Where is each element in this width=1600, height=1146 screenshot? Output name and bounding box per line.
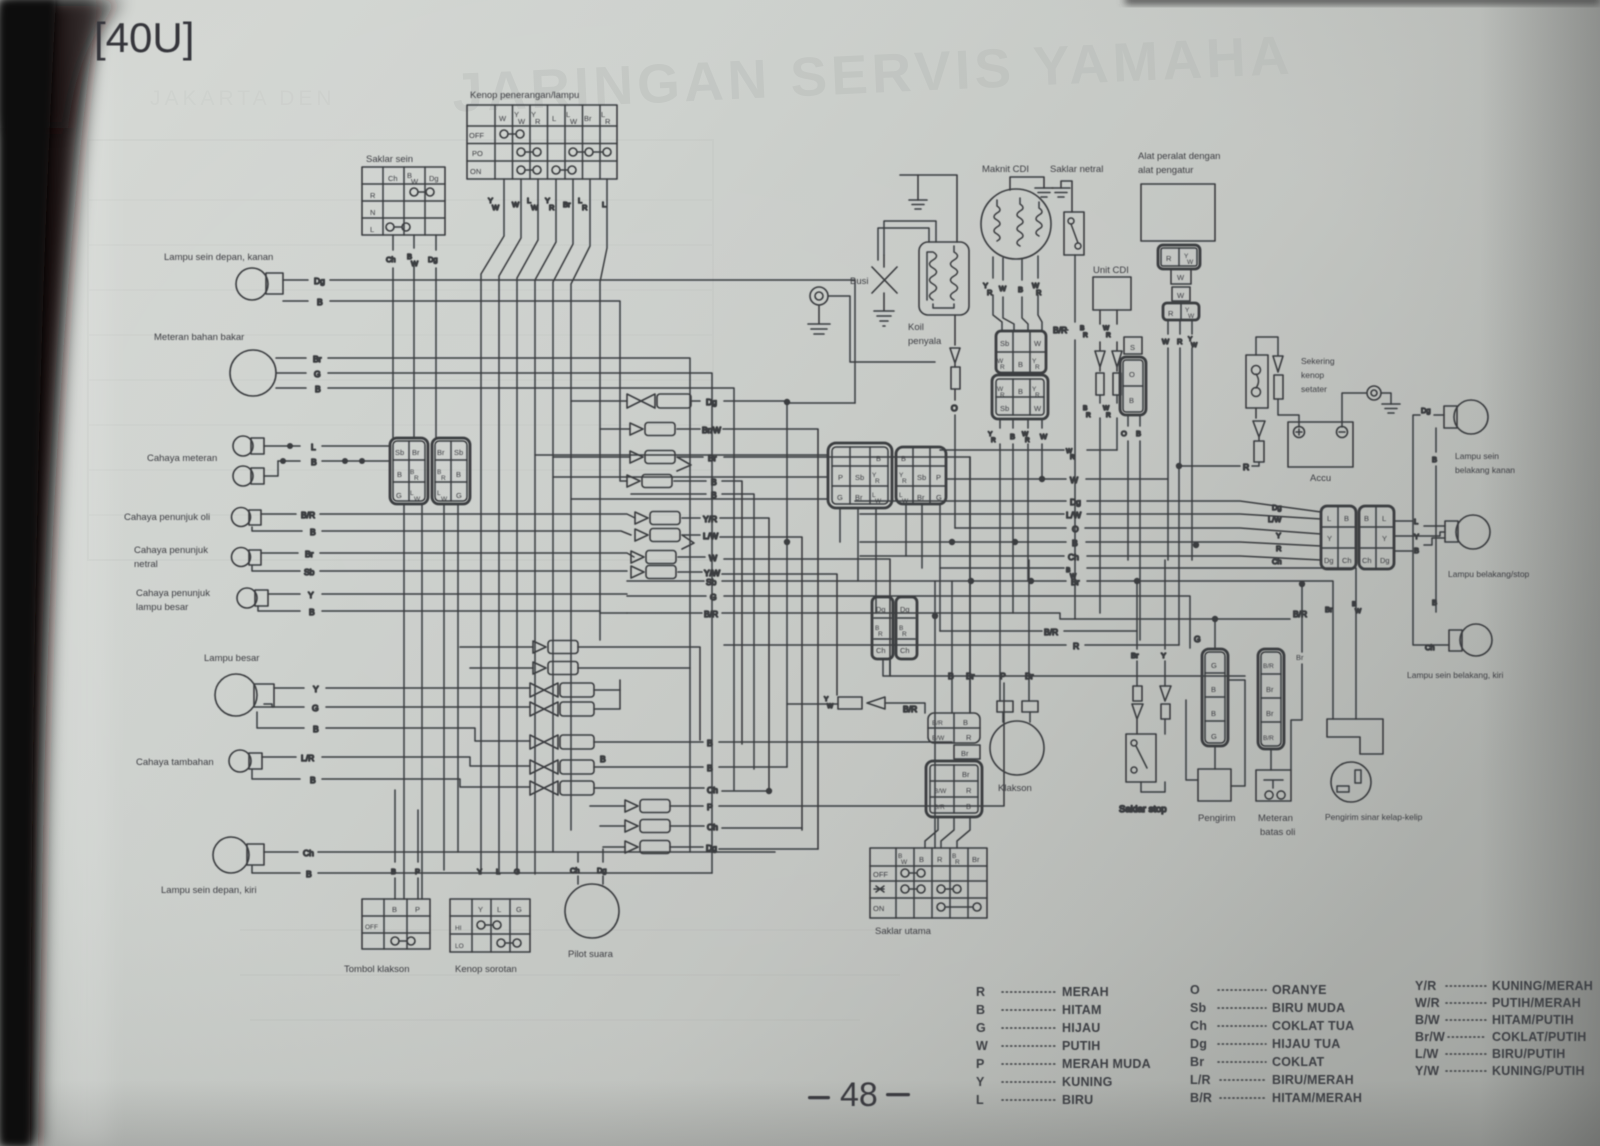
junction dots mid band (784, 539, 938, 848)
svg-text:B: B (1211, 685, 1216, 694)
svg-text:W: W (1040, 432, 1048, 441)
wire W/R (940, 448, 1117, 461)
svg-text:Ch: Ch (1425, 643, 1435, 652)
svg-text:P: P (838, 473, 843, 482)
sender: Pengirim connector stack and box (1186, 649, 1245, 824)
arrow connector column upper: Dg row (571, 394, 855, 408)
svg-text:B: B (306, 869, 312, 879)
svg-text:B: B (310, 775, 316, 785)
svg-text:Unit CDI: Unit CDI (1093, 265, 1129, 276)
svg-text:R: R (549, 203, 555, 212)
svg-text:L: L (976, 1093, 984, 1107)
svg-text:W: W (499, 114, 507, 123)
svg-text:B: B (1083, 405, 1087, 412)
svg-text:Cahaya penunjuk: Cahaya penunjuk (134, 545, 208, 556)
svg-text:B: B (711, 477, 717, 487)
svg-text:Br: Br (972, 855, 980, 864)
wire B/R row (627, 609, 1307, 648)
wire Sb neutral (252, 566, 627, 577)
svg-text:L: L (311, 442, 316, 452)
svg-text:Sb: Sb (395, 448, 404, 457)
arrow connector row 847: Dg (603, 841, 818, 854)
svg-text:HITAM: HITAM (1062, 1003, 1102, 1017)
svg-text:Ch: Ch (1190, 1019, 1207, 1033)
svg-text:B: B (707, 738, 713, 748)
svg-text:B: B (310, 527, 316, 537)
color code legend column 1 (976, 985, 1151, 1107)
arrow connector: Y/W row (631, 566, 837, 696)
svg-text:B: B (1364, 514, 1369, 523)
svg-text:alat pengatur: alat pengatur (1138, 165, 1193, 176)
svg-text:setater: setater (1301, 384, 1327, 394)
wire Br long (627, 577, 1333, 719)
frame ground bolt (left of busi) (808, 287, 830, 334)
svg-text:R: R (1083, 332, 1088, 339)
wire Dg long (855, 497, 1321, 512)
svg-text:B: B (600, 754, 606, 764)
svg-text:W: W (414, 496, 421, 503)
diode + resistor below coil, O wire (950, 315, 960, 528)
leads below maknit connector: Y/R B W/R W (988, 419, 1048, 676)
svg-text:Saklar sein: Saklar sein (366, 154, 413, 165)
svg-text:Ch: Ch (570, 866, 580, 875)
svg-text:B: B (1352, 601, 1356, 608)
stop switch: Saklar stop with leads (1119, 560, 1171, 815)
svg-text:W: W (999, 284, 1007, 293)
svg-text:R: R (1073, 641, 1079, 651)
svg-text:B/R: B/R (903, 704, 917, 714)
svg-text:L: L (1327, 514, 1331, 523)
svg-text:G: G (1211, 661, 1217, 670)
svg-text:R: R (1000, 364, 1005, 371)
svg-text:B/R: B/R (301, 510, 315, 520)
svg-text:Y/R: Y/R (703, 514, 717, 524)
svg-text:G: G (837, 493, 843, 502)
svg-text:L/W: L/W (1066, 510, 1081, 520)
wire B meter light (278, 457, 390, 467)
wire B from front right turn lamp (283, 297, 627, 481)
svg-text:B: B (1432, 455, 1437, 464)
svg-text:B: B (1072, 538, 1078, 548)
horn: Klakson (990, 701, 1044, 794)
svg-text:Lampu sein: Lampu sein (1455, 451, 1499, 461)
connector block pair (left, 2x3 cells each): Sb/Br/B/BR/G/LW (390, 438, 428, 504)
svg-text:Dg: Dg (1324, 556, 1334, 565)
svg-text:B/R: B/R (1190, 1091, 1212, 1105)
wire from ground bolt to coil area (828, 296, 935, 362)
unit CDI lead B/R with diode and resistor (1080, 310, 1105, 613)
svg-text:[40U]: [40U] (94, 14, 194, 61)
svg-text:B: B (1018, 285, 1023, 294)
svg-text:W: W (411, 259, 419, 268)
svg-text:B: B (1414, 546, 1419, 555)
svg-text:O: O (1190, 983, 1200, 997)
svg-text:B: B (1010, 432, 1015, 441)
svg-text:B/R: B/R (704, 609, 718, 619)
svg-text:L/R: L/R (301, 753, 314, 763)
lamp: Cahaya tambahan (auxiliary light) (136, 750, 262, 772)
svg-text:W: W (492, 203, 500, 212)
svg-text:Lampu sein depan, kanan: Lampu sein depan, kanan (164, 252, 273, 263)
wire below twin connector to the right (883, 659, 1245, 701)
svg-text:KUNING/MERAH: KUNING/MERAH (1492, 979, 1593, 993)
svg-text:Dg: Dg (314, 276, 325, 286)
svg-text:Sb: Sb (1000, 339, 1009, 348)
wire Dg to rear right turn lamp (1413, 406, 1449, 652)
svg-text:belakang kanan: belakang kanan (1455, 465, 1515, 475)
wire loop from busi to coil top (878, 221, 936, 260)
wire Ch front left turn (264, 848, 775, 858)
svg-text:Dg: Dg (428, 255, 438, 264)
svg-text:B: B (397, 470, 402, 479)
arrow connector row 767 (bowtie) + B out (530, 754, 787, 774)
svg-text:O: O (1129, 370, 1135, 379)
svg-text:W: W (1103, 325, 1110, 332)
svg-text:KUNING: KUNING (1062, 1075, 1113, 1089)
wire B/W long (940, 567, 1362, 719)
svg-text:R: R (1036, 288, 1042, 297)
svg-text:W: W (531, 203, 539, 212)
svg-text:G: G (1194, 634, 1201, 644)
svg-text:B: B (948, 671, 954, 681)
svg-text:MERAH: MERAH (1062, 985, 1109, 999)
svg-text:B: B (315, 384, 321, 394)
svg-text:L: L (497, 905, 501, 914)
wire: B row 2 (631, 490, 754, 769)
svg-text:Br: Br (305, 549, 314, 559)
wire Y high beam ind (268, 590, 627, 600)
svg-text:R: R (414, 475, 419, 482)
horn button table: Tombol klakson (344, 899, 430, 975)
svg-text:Y/W: Y/W (1415, 1064, 1439, 1078)
wire B high beam ind (258, 606, 627, 617)
svg-text:Lampu sein depan, kiri: Lampu sein depan, kiri (161, 885, 257, 896)
wire Br from fuel meter (276, 354, 690, 852)
wire B oil light (252, 527, 631, 537)
svg-text:Y: Y (313, 684, 319, 694)
svg-text:W: W (1162, 337, 1170, 346)
svg-text:W: W (976, 1039, 988, 1053)
svg-text:Meteran bahan bakar: Meteran bahan bakar (154, 332, 244, 343)
arrow connector: Y/R row (635, 512, 769, 792)
svg-text:W: W (441, 496, 448, 503)
wire G from fuel meter (276, 369, 712, 873)
svg-text:Br: Br (1325, 605, 1333, 614)
arrow connector row 826: Ch (600, 820, 802, 833)
svg-text:W: W (709, 553, 717, 563)
svg-text:R: R (582, 203, 588, 212)
svg-text:B: B (1432, 598, 1437, 607)
wires above pilot suara: Ch Dg (570, 849, 607, 884)
svg-text:Saklar stop: Saklar stop (1119, 804, 1167, 815)
flasher unit: Pengirim sinar kelap-kelip (1325, 719, 1423, 822)
leads below regulator stack: W R Y/W (1162, 320, 1198, 560)
wire Sb row (706, 577, 717, 587)
page number 48 (808, 1076, 910, 1114)
svg-text:Ch: Ch (1342, 556, 1352, 565)
svg-text:lampu besar: lampu besar (136, 602, 188, 613)
svg-text:R: R (875, 478, 880, 485)
svg-text:Y: Y (1161, 651, 1166, 660)
svg-text:Dg: Dg (876, 605, 886, 614)
svg-text:KUNING/PUTIH: KUNING/PUTIH (1492, 1064, 1585, 1078)
svg-text:P: P (707, 802, 713, 812)
svg-text:L: L (552, 114, 556, 123)
svg-text:Lampu besar: Lampu besar (204, 653, 259, 664)
wires below left connector pair (404, 504, 458, 899)
arrow connector: Br row (553, 451, 970, 714)
svg-text:R: R (937, 855, 943, 864)
wire Ch long (860, 552, 1321, 566)
svg-text:B: B (1344, 514, 1349, 523)
svg-text:Br: Br (437, 448, 445, 457)
wire B/R from saklar netral (1053, 255, 1075, 619)
CDI unit: Unit CDI (1093, 265, 1131, 310)
svg-text:G: G (1211, 732, 1217, 741)
svg-text:R: R (1243, 462, 1249, 472)
connector under maknit CDI (upper 2x3) (996, 331, 1046, 373)
svg-text:Cahaya penunjuk oli: Cahaya penunjuk oli (124, 512, 210, 523)
ground for maknit CDI (1010, 177, 1053, 197)
diode and resistor below fuse, R lead (1176, 408, 1265, 645)
svg-text:Dg: Dg (900, 605, 910, 614)
svg-text:R: R (1106, 412, 1111, 419)
lamp: Cahaya penunjuk netral (neutral indicator) (134, 545, 261, 570)
ground (top, above coil) (900, 175, 957, 242)
svg-text:B: B (456, 470, 461, 479)
svg-text:Br: Br (1190, 1055, 1204, 1069)
wires horn connector to main switch (925, 817, 970, 848)
svg-text:B: B (1211, 709, 1216, 718)
svg-text:penyala: penyala (908, 336, 942, 347)
svg-text:HI: HI (455, 925, 462, 932)
svg-text:W: W (1070, 475, 1078, 485)
svg-text:Dg: Dg (1380, 556, 1390, 565)
svg-text:B/R: B/R (1263, 735, 1274, 742)
svg-text:G: G (710, 592, 717, 602)
pilot lamp/buzzer: Pilot suara (565, 884, 619, 960)
connector stack below regulator (1158, 245, 1200, 320)
svg-text:Sekering: Sekering (1301, 356, 1335, 366)
arrow connector row 647 (460, 641, 700, 741)
svg-text:L/W: L/W (1268, 515, 1282, 524)
rear harness connector block A (1321, 506, 1356, 569)
svg-text:R: R (878, 631, 883, 638)
svg-text:Meteran: Meteran (1258, 813, 1293, 824)
ground bolt for battery (1342, 386, 1400, 427)
svg-text:W: W (570, 117, 578, 126)
wires below center connector (840, 504, 940, 631)
svg-text:Br: Br (1296, 653, 1304, 662)
svg-text:Sb: Sb (1190, 1001, 1207, 1015)
arrow connector row 690 (bowtie) (530, 683, 620, 697)
svg-text:Saklar utama: Saklar utama (875, 926, 932, 937)
svg-text:W: W (1187, 259, 1194, 266)
svg-text:Y: Y (308, 590, 314, 600)
svg-text:B/W: B/W (934, 788, 947, 795)
regulator box: Alat peralat dengan alat pengatur (1138, 151, 1220, 241)
svg-text:N: N (370, 208, 375, 217)
svg-text:Br: Br (962, 770, 970, 779)
svg-text:Y: Y (477, 867, 482, 876)
leads below S/O/B stack (1121, 415, 1141, 640)
svg-text:COKLAT: COKLAT (1272, 1055, 1325, 1069)
svg-text:Dg: Dg (1070, 497, 1081, 507)
wire L/R aux light (262, 753, 530, 766)
svg-text:Koil: Koil (908, 322, 924, 333)
svg-text:B: B (919, 855, 924, 864)
wire B from rear right turn lamp (1432, 428, 1437, 612)
svg-text:P: P (415, 905, 420, 914)
svg-text:L/R: L/R (1190, 1073, 1211, 1087)
svg-text:B: B (317, 297, 323, 307)
svg-text:OFF: OFF (873, 870, 888, 879)
svg-text:Ch: Ch (303, 848, 314, 858)
lamp: Lampu sein depan kiri (front left turn lamp) (161, 837, 264, 896)
svg-text:Ch: Ch (388, 174, 398, 183)
svg-text:P: P (415, 867, 420, 876)
svg-text:BIRU/MERAH: BIRU/MERAH (1272, 1073, 1354, 1087)
main harness connector (center): block B (896, 447, 946, 505)
switch table: Saklar sein (turn signal switch) (362, 154, 445, 235)
svg-text:Br: Br (313, 354, 322, 364)
feed wires into center connector from left bundle (535, 455, 828, 499)
svg-text:L/W: L/W (1415, 1047, 1439, 1061)
wire W (946, 475, 1168, 485)
svg-text:Br/W: Br/W (702, 425, 721, 435)
svg-text:R: R (1106, 332, 1111, 339)
svg-text:W: W (1355, 608, 1362, 615)
svg-text:OFF: OFF (365, 924, 378, 931)
svg-text:B: B (392, 905, 397, 914)
svg-text:Alat peralat dengan: Alat peralat dengan (1138, 151, 1220, 162)
svg-text:W: W (1177, 273, 1185, 282)
svg-text:Br: Br (1131, 651, 1139, 660)
WATERMARK ghost text (451, 24, 1295, 124)
svg-text:ON: ON (470, 167, 481, 176)
svg-text:G: G (396, 491, 402, 500)
fuse: Sekering kenop setater (1246, 337, 1335, 408)
wire Y headlight (274, 684, 530, 694)
svg-text:Dg: Dg (1421, 406, 1431, 415)
svg-text:B: B (309, 607, 315, 617)
svg-text:batas oli: batas oli (1260, 827, 1295, 838)
wire B aux light (252, 770, 530, 787)
arrow connector: L/W row (635, 529, 802, 831)
svg-text:Br: Br (966, 671, 975, 681)
svg-text:W: W (512, 200, 520, 209)
arrow connector: Br/W row (600, 423, 818, 850)
lamp: Lampu sein depan kanan (164, 252, 283, 300)
color code legend column 2 (1190, 983, 1362, 1105)
svg-text:W: W (1191, 342, 1198, 349)
wire R mid (724, 641, 1179, 651)
svg-text:Sb: Sb (1000, 404, 1009, 413)
twin inline connectors Dg/BR/Ch (872, 597, 893, 659)
svg-text:L: L (1382, 514, 1386, 523)
svg-text:Y/R: Y/R (1415, 979, 1436, 993)
oil level meter: Meteran batas oli (1256, 584, 1304, 838)
book gutter shadow left (0, 0, 98, 1146)
maknit CDI leads Y/R W B W/R (983, 256, 1042, 331)
svg-text:HITAM/MERAH: HITAM/MERAH (1272, 1091, 1362, 1105)
lamp: Cahaya penunjuk oli (oil indicator light) (124, 508, 261, 527)
svg-text:W: W (1103, 405, 1110, 412)
svg-text:Ch: Ch (707, 785, 718, 795)
svg-text:JAKARTA DEN: JAKARTA DEN (150, 87, 336, 110)
svg-text:G: G (976, 1021, 986, 1035)
svg-text:PUTIH/MERAH: PUTIH/MERAH (1492, 996, 1581, 1010)
svg-text:W/R: W/R (1415, 996, 1440, 1010)
svg-text:G: G (516, 905, 522, 914)
wire Dg from front right turn lamp (283, 276, 855, 403)
svg-text:R: R (1166, 254, 1172, 263)
svg-text:Br: Br (1266, 685, 1274, 694)
arrow connector row 668 (470, 662, 690, 675)
svg-text:B: B (966, 802, 971, 811)
svg-text:G: G (456, 491, 462, 500)
svg-text:Y: Y (976, 1075, 985, 1089)
svg-text:L: L (1414, 517, 1418, 526)
wire O long (955, 524, 1321, 540)
flasher feed: Y/W resistor and arrow (787, 696, 925, 714)
svg-text:B: B (313, 724, 319, 734)
svg-text:Pengirim: Pengirim (1198, 813, 1236, 824)
svg-text:Br: Br (563, 200, 571, 209)
svg-text:R: R (1168, 309, 1174, 318)
svg-text:B: B (901, 454, 906, 463)
svg-text:B/R: B/R (1044, 627, 1058, 637)
svg-text:Y: Y (824, 696, 829, 703)
svg-text:R: R (955, 859, 960, 866)
svg-text:R: R (991, 437, 996, 444)
svg-text:Sb: Sb (917, 473, 926, 482)
svg-text:G: G (314, 369, 321, 379)
svg-text:Tombol klakson: Tombol klakson (344, 964, 409, 975)
svg-text:kenop: kenop (1301, 370, 1324, 380)
svg-text:W: W (1177, 291, 1185, 300)
svg-text:P: P (936, 473, 941, 482)
svg-text:P: P (1000, 671, 1006, 681)
connector block pair (right mate) (432, 438, 470, 504)
svg-text:Cahaya penunjuk: Cahaya penunjuk (136, 588, 210, 599)
svg-text:R: R (1025, 437, 1030, 444)
svg-text:ORANYE: ORANYE (1272, 983, 1327, 997)
connector under maknit CDI (lower 2x3, double border) (992, 375, 1048, 419)
svg-text:Busi: Busi (850, 276, 868, 287)
svg-text:R: R (1070, 454, 1075, 461)
svg-text:HIJAU TUA: HIJAU TUA (1272, 1037, 1340, 1051)
svg-text:Kenop penerangan/lampu: Kenop penerangan/lampu (470, 90, 579, 101)
svg-text:Dg: Dg (597, 866, 607, 875)
svg-text:Ch: Ch (1272, 557, 1282, 566)
svg-text:Ch: Ch (707, 822, 718, 832)
svg-text:Lampu belakang/stop: Lampu belakang/stop (1448, 569, 1530, 579)
wires above tombol klakson (391, 790, 420, 899)
svg-text:R: R (370, 191, 376, 200)
svg-text:COKLAT TUA: COKLAT TUA (1272, 1019, 1354, 1033)
lamp: Cahaya meteran (meter light, 2 bulbs) (147, 436, 278, 486)
svg-text:PO: PO (472, 149, 483, 158)
svg-text:R: R (1276, 544, 1282, 553)
svg-text:Dg: Dg (706, 843, 717, 853)
arrow connector: B row (627, 475, 742, 745)
svg-text:G: G (514, 867, 520, 876)
svg-text:B: B (963, 718, 968, 727)
svg-text:B/W: B/W (1415, 1013, 1440, 1027)
rear harness connector block B (1359, 506, 1394, 569)
svg-text:R: R (976, 985, 985, 999)
